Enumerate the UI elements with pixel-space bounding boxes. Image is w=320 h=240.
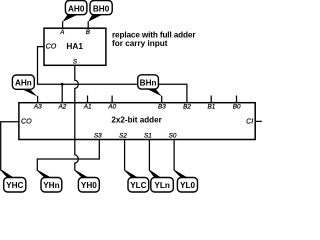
junction dot on AHn net bbox=[61, 83, 64, 86]
stub adder pin A3 bbox=[37, 96, 39, 103]
flag AHn bbox=[12, 75, 37, 97]
flag YL0 bbox=[173, 170, 197, 192]
wire adder S3 to YHn bbox=[37, 140, 99, 171]
flag BHn bbox=[138, 75, 162, 97]
flag YH0 bbox=[74, 170, 99, 192]
svg-text:S3: S3 bbox=[94, 133, 102, 140]
wire HA1 S to YH0 with crossover hops bbox=[75, 65, 79, 170]
svg-text:YHn: YHn bbox=[43, 181, 59, 190]
svg-text:BHn: BHn bbox=[140, 79, 157, 88]
svg-text:B0: B0 bbox=[233, 104, 241, 111]
wire junction to adder pin A2 bbox=[61, 84, 63, 103]
stub adder pin CI bbox=[255, 120, 262, 122]
wire adder CO to YHC bbox=[1, 122, 19, 171]
svg-text:CI: CI bbox=[246, 117, 253, 125]
stub adder pin A1 bbox=[87, 96, 89, 103]
svg-text:YLC: YLC bbox=[130, 181, 146, 190]
svg-text:CO: CO bbox=[21, 117, 32, 125]
stub adder pin A0 bbox=[111, 96, 113, 103]
stub adder pin B1 bbox=[210, 96, 212, 103]
svg-text:B1: B1 bbox=[207, 104, 215, 111]
stub adder pin B3 bbox=[161, 96, 163, 103]
svg-text:2x2-bit adder: 2x2-bit adder bbox=[111, 115, 162, 124]
svg-text:B: B bbox=[86, 29, 90, 36]
svg-text:S1: S1 bbox=[144, 133, 152, 140]
wire BH0 to HA1 pin B bbox=[87, 21, 89, 28]
svg-text:A3: A3 bbox=[33, 104, 42, 111]
wire AH0 to HA1 pin A bbox=[62, 21, 64, 28]
half adder HA1 bbox=[44, 28, 106, 65]
flag YLn bbox=[149, 170, 174, 192]
wire HA1 CO to adder B2 (net AHn) bbox=[38, 47, 187, 103]
svg-text:A0: A0 bbox=[107, 104, 116, 111]
svg-text:B3: B3 bbox=[158, 104, 166, 111]
svg-text:A: A bbox=[59, 29, 64, 36]
wire adder S2 to YLC bbox=[124, 140, 126, 171]
flag AH0 bbox=[63, 1, 87, 22]
2x2-bit adder U1 bbox=[19, 103, 255, 140]
stub adder pin B0 bbox=[236, 96, 238, 103]
svg-text:HA1: HA1 bbox=[66, 41, 83, 51]
flag YLC bbox=[124, 170, 149, 192]
wire adder S0 to YL0 bbox=[173, 140, 175, 171]
svg-text:YL0: YL0 bbox=[180, 181, 195, 190]
wire adder S1 to YLn bbox=[148, 140, 150, 171]
svg-text:YLn: YLn bbox=[154, 181, 169, 190]
svg-text:YHC: YHC bbox=[6, 181, 23, 190]
svg-text:A1: A1 bbox=[83, 104, 92, 111]
svg-text:S0: S0 bbox=[169, 133, 177, 140]
flag BH0 bbox=[88, 1, 112, 22]
svg-text:B2: B2 bbox=[183, 104, 191, 111]
svg-text:BH0: BH0 bbox=[93, 4, 110, 13]
flag YHC bbox=[0, 170, 26, 192]
svg-text:AH0: AH0 bbox=[68, 4, 85, 13]
svg-text:CO: CO bbox=[46, 43, 57, 51]
svg-text:S2: S2 bbox=[119, 133, 127, 140]
svg-text:for carry input: for carry input bbox=[112, 39, 168, 48]
svg-text:AHn: AHn bbox=[15, 79, 32, 88]
svg-text:YH0: YH0 bbox=[81, 181, 97, 190]
svg-text:A2: A2 bbox=[57, 104, 66, 111]
flag YHn bbox=[37, 170, 62, 192]
